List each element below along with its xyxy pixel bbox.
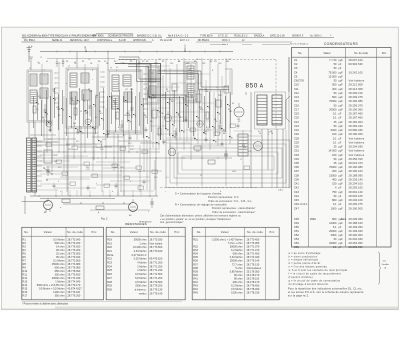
svg-text:28.190.080: 28.190.080 <box>349 99 364 103</box>
svg-text:15: 15 <box>207 129 209 131</box>
svg-text:μμF: μμF <box>339 234 344 237</box>
coil L5 <box>70 73 77 87</box>
svg-text:BANDES O.C. G.B. G.L.: BANDES O.C. G.B. G.L. <box>137 34 163 37</box>
svg-text:c: c <box>165 191 166 193</box>
svg-text:28.295.100: 28.295.100 <box>349 186 364 190</box>
tube B5 output pentode <box>234 103 244 117</box>
wire centre verticals <box>150 58 230 196</box>
svg-text:Ordre de succession: O.C., G.B: Ordre de succession: O.C., G.B., G.L. <box>208 200 253 203</box>
svg-text:R1: R1 <box>23 237 27 241</box>
svg-text:8: 8 <box>212 70 213 72</box>
svg-text:SERIE R.F.: SERIE R.F. <box>292 35 304 37</box>
svg-text:5: 5 <box>96 97 97 99</box>
svg-text:C34: C34 <box>224 155 227 157</box>
wire loop 1 <box>166 140 290 188</box>
svg-text:μμF: μμF <box>339 71 344 74</box>
svg-text:b: b <box>98 212 99 214</box>
svg-text:C48: C48 <box>294 217 299 221</box>
svg-text:R21: R21 <box>58 167 61 169</box>
wire corner enclosure <box>225 69 232 95</box>
svg-text:S2: S2 <box>191 97 193 99</box>
capacitor C4 hanging <box>56 59 58 68</box>
svg-text:C21: C21 <box>173 131 176 133</box>
wire upper dashed feeder <box>47 59 276 131</box>
svg-text:500: 500 <box>332 217 337 221</box>
svg-text:C47: C47 <box>294 206 299 210</box>
svg-text:No. de code: No. de code <box>247 230 263 234</box>
svg-text:μμF: μμF <box>339 166 344 169</box>
svg-text:28.200.400: 28.200.400 <box>349 233 364 237</box>
svg-text:28.779.130: 28.779.130 <box>150 287 163 291</box>
svg-text:28.188.100: 28.188.100 <box>349 221 364 225</box>
svg-text:20000: 20000 <box>329 229 337 233</box>
svg-text:14 ohm: 14 ohm <box>56 244 65 248</box>
svg-text:C5: C5 <box>74 63 76 65</box>
svg-text:R9: R9 <box>194 61 196 63</box>
svg-text:L5: L5 <box>68 66 70 68</box>
svg-text:19.242.100: 19.242.100 <box>349 70 364 74</box>
svg-text:R12: R12 <box>23 276 28 280</box>
wire extra horizontal ticks left <box>36 131 262 191</box>
coil L11 <box>123 75 131 86</box>
svg-text:500 ohm: 500 ohm <box>55 241 65 245</box>
svg-text:150: 150 <box>332 182 337 186</box>
svg-text:28.771.260: 28.771.260 <box>150 276 163 280</box>
svg-text:28.779.250: 28.779.250 <box>150 284 163 288</box>
svg-text:200: 200 <box>332 169 337 173</box>
svg-text:C55: C55 <box>294 245 299 249</box>
svg-text:Fig. 2: Fig. 2 <box>101 217 108 221</box>
svg-text:μμF: μμF <box>339 158 344 161</box>
svg-text:Valeur: Valeur <box>130 230 138 234</box>
svg-text:R17: R17 <box>23 293 28 297</box>
svg-text:C13: C13 <box>294 95 299 99</box>
svg-text:Position représentée: O.C.: Position représentée: O.C. <box>208 196 240 199</box>
resistors table 2 rows <box>107 237 163 295</box>
svg-text:5: 5 <box>140 70 141 72</box>
svg-text:L1: L1 <box>29 68 31 70</box>
svg-text:0,64 Mohm: 0,64 Mohm <box>134 249 147 253</box>
svg-text:90 ohm: 90 ohm <box>234 276 243 280</box>
punch hole <box>23 36 26 39</box>
svg-text:28.206.210: 28.206.210 <box>349 91 364 95</box>
svg-text:50: 50 <box>80 111 82 113</box>
svg-text:C8: C8 <box>179 117 181 119</box>
svg-text:75.000: 75.000 <box>328 70 337 74</box>
svg-text:e: e <box>146 87 147 89</box>
svg-text:C31: C31 <box>294 149 299 153</box>
svg-text:70000: 70000 <box>329 99 337 103</box>
legend switches text <box>160 193 256 225</box>
svg-text:C16: C16 <box>186 63 189 65</box>
labels scatter 2 <box>36 57 270 185</box>
svg-text:C20: C20 <box>294 116 299 120</box>
svg-text:S4: S4 <box>178 61 180 63</box>
svg-text:Cas d'alimentation alternative: Cas d'alimentation alternative: prises, … <box>160 214 241 217</box>
svg-text:2 Mohm: 2 Mohm <box>137 264 146 268</box>
svg-text:C13: C13 <box>154 63 157 65</box>
svg-text:C23: C23 <box>48 139 51 141</box>
svg-text:μμF: μμF <box>339 230 344 233</box>
svg-text:R2: R2 <box>23 241 27 245</box>
svg-text:28.773.660: 28.773.660 <box>150 245 163 249</box>
svg-text:0,5 Mohm: 0,5 Mohm <box>135 280 146 284</box>
wire bus m2 <box>33 157 232 159</box>
svg-text:μμF: μμF <box>339 84 344 87</box>
coil L4 <box>40 88 48 98</box>
svg-text:28.190.080: 28.190.080 <box>349 165 364 169</box>
svg-text:15000 ohm: 15000 ohm <box>230 259 243 263</box>
wire v5 <box>76 52 78 69</box>
svg-text:6: 6 <box>164 70 165 72</box>
wire v7 <box>107 52 109 71</box>
svg-text:DESSIN No. 1247: DESSIN No. 1247 <box>70 40 89 42</box>
svg-text:28.001.470: 28.001.470 <box>349 161 364 165</box>
svg-text:R31: R31 <box>193 237 198 241</box>
svg-text:28.772.340: 28.772.340 <box>247 255 260 259</box>
svg-text:1000: 1000 <box>331 206 337 210</box>
capacitor C30 <box>46 166 50 176</box>
svg-text:28.212.008: 28.212.008 <box>349 83 364 87</box>
svg-text:μμF: μμF <box>339 100 344 103</box>
svg-text:32 ohm: 32 ohm <box>56 251 65 255</box>
svg-text:28.203.140: 28.203.140 <box>349 177 364 181</box>
svg-text:850: 850 <box>246 82 258 89</box>
svg-text:600 ohm: 600 ohm <box>233 252 243 256</box>
upper micro labels <box>38 61 229 72</box>
svg-text:69.479.520: 69.479.520 <box>150 257 163 261</box>
svg-text:C6: C6 <box>90 63 92 65</box>
svg-text:C17: C17 <box>85 113 88 115</box>
svg-text:e: e <box>268 134 269 136</box>
field coil laminations <box>27 138 32 192</box>
svg-text:S1: S1 <box>82 61 84 63</box>
small component boxes scatter <box>46 124 250 189</box>
svg-text:29.779.140: 29.779.140 <box>150 291 163 295</box>
svg-text:B8: B8 <box>44 212 46 214</box>
svg-text:No. de code: No. de code <box>150 230 166 234</box>
svg-text:C4: C4 <box>294 70 298 74</box>
svg-text:R24: R24 <box>107 264 112 268</box>
svg-text:μμF: μμF <box>339 150 344 153</box>
svg-text:15.000: 15.000 <box>328 74 337 78</box>
svg-text:C25: C25 <box>148 141 151 143</box>
svg-text:C30: C30 <box>294 145 299 149</box>
coil L6 <box>70 92 77 104</box>
svg-text:S4: S4 <box>151 73 153 75</box>
svg-text:C21: C21 <box>294 120 299 124</box>
svg-text:μμF: μμF <box>339 133 344 136</box>
svg-text:C31: C31 <box>54 161 57 163</box>
svg-text:C33: C33 <box>170 147 173 149</box>
svg-text:C15: C15 <box>170 63 173 65</box>
svg-text:No. de code: No. de code <box>67 230 83 234</box>
resistor R21 <box>208 160 215 164</box>
svg-text:S.T.D. 22: S.T.D. 22 <box>218 35 228 37</box>
tube B7 <box>168 148 176 156</box>
svg-text:Volt-Isolateur: Volt-Isolateur <box>247 266 262 270</box>
resistors table 3 rows <box>193 237 261 294</box>
svg-text:C50: C50 <box>294 225 299 229</box>
svg-text:750: 750 <box>332 190 337 194</box>
svg-text:15000: 15000 <box>329 173 337 177</box>
svg-text:du bruitage d'accord obscurci.: du bruitage d'accord obscurci. <box>289 283 330 286</box>
svg-text:R29: R29 <box>107 284 112 288</box>
capacitor C14 <box>121 120 124 132</box>
svg-text:R43: R43 <box>193 284 198 288</box>
resistors table 3 header <box>197 230 275 234</box>
tube B9 magic eye <box>129 199 138 212</box>
svg-text:28.007.100: 28.007.100 <box>349 58 364 62</box>
svg-text:C17: C17 <box>294 107 299 111</box>
svg-text:28.256.240: 28.256.240 <box>349 124 364 128</box>
svg-text:R27: R27 <box>107 276 112 280</box>
svg-text:R28: R28 <box>248 151 251 153</box>
loudspeaker <box>286 96 290 122</box>
svg-text:R21: R21 <box>107 249 112 253</box>
svg-text:No. 850A-1: No. 850A-1 <box>310 34 322 37</box>
svg-text:C52: C52 <box>294 233 299 237</box>
coil L9 oscillator <box>112 75 119 91</box>
wire loop 4 <box>178 152 278 174</box>
IF coil S4b <box>149 86 156 98</box>
svg-text:R22: R22 <box>114 167 117 169</box>
svg-text:R16: R16 <box>243 147 246 149</box>
svg-text:3: 3 <box>92 70 93 72</box>
top bus ticks <box>57 50 220 53</box>
svg-text:R20: R20 <box>107 245 112 249</box>
earth terminal <box>29 57 33 60</box>
svg-text:28.256.370: 28.256.370 <box>349 103 364 107</box>
svg-text:R11: R11 <box>214 61 217 63</box>
svg-text:μμF: μμF <box>339 199 344 202</box>
svg-text:4: 4 <box>116 70 117 72</box>
svg-text:28.206.275: 28.206.275 <box>349 202 364 206</box>
svg-text:S2: S2 <box>114 61 116 63</box>
svg-text:28.771.470: 28.771.470 <box>247 248 260 252</box>
svg-text:b: b <box>112 191 113 193</box>
svg-text:μμF: μμF <box>339 178 344 181</box>
wire loop 5 <box>182 156 274 170</box>
svg-text:APPROUVE: APPROUVE <box>133 39 146 42</box>
svg-text:C18: C18 <box>202 63 205 65</box>
svg-text:R18: R18 <box>107 237 112 241</box>
capacitor C12 padder <box>131 102 134 118</box>
svg-text:28.774.430: 28.774.430 <box>68 276 81 280</box>
svg-text:R17: R17 <box>76 141 79 143</box>
svg-text:28.773.500: 28.773.500 <box>68 258 81 262</box>
svg-text:R5: R5 <box>142 61 144 63</box>
svg-text:R14: R14 <box>23 283 28 287</box>
svg-text:2: 2 <box>68 70 69 72</box>
shield can K1 <box>27 70 52 122</box>
svg-text:30000 ohm: 30000 ohm <box>230 245 243 249</box>
svg-text:μμF: μμF <box>339 170 344 173</box>
wire v right4 <box>267 129 269 170</box>
svg-text:25000 ohm: 25000 ohm <box>52 262 65 266</box>
svg-text:C10: C10 <box>294 83 299 87</box>
svg-text:28.776.080: 28.776.080 <box>68 265 81 269</box>
rectifier tube B6 <box>254 142 263 151</box>
svg-text:5: 5 <box>96 183 97 185</box>
shield can K2 <box>66 68 98 128</box>
junction dots mid <box>47 152 219 172</box>
svg-text:SERIE 22: SERIE 22 <box>52 40 63 42</box>
wire v9 <box>123 134 125 196</box>
svg-text:μμF: μμF <box>339 129 344 132</box>
svg-text:0,5: 0,5 <box>114 103 117 105</box>
svg-text:R11: R11 <box>226 61 229 63</box>
svg-text:6,1: 6,1 <box>333 225 337 229</box>
legend right list <box>289 252 348 286</box>
svg-text:R6: R6 <box>23 255 27 259</box>
svg-text:C19: C19 <box>294 112 299 116</box>
coil L2 <box>30 90 37 103</box>
component labels scatter <box>37 62 269 193</box>
svg-text:0,64 Mohm: 0,64 Mohm <box>230 255 243 259</box>
wire v right5 <box>276 129 278 188</box>
svg-text:28.254.450: 28.254.450 <box>349 241 364 245</box>
mid band blobs <box>36 96 230 128</box>
capacitors table frame <box>292 48 392 248</box>
svg-text:R26: R26 <box>107 272 112 276</box>
svg-text:40000 ohm: 40000 ohm <box>52 276 65 280</box>
svg-text:C44: C44 <box>294 194 299 198</box>
svg-text:28.770.450: 28.770.450 <box>247 237 260 241</box>
svg-text:20000: 20000 <box>329 241 337 245</box>
svg-text:1000 ohm: 1000 ohm <box>231 291 242 295</box>
svg-text:R19: R19 <box>128 143 131 145</box>
svg-text:R15: R15 <box>23 286 28 290</box>
svg-text:2-Bev: 2-Bev <box>278 190 283 192</box>
switch contacts left <box>43 167 52 180</box>
svg-text:B5: B5 <box>232 103 234 105</box>
wire heavy vertical chassis <box>160 63 162 140</box>
svg-text:R.F. 850 A: R.F. 850 A <box>24 39 35 42</box>
svg-text:6,2 Mohm: 6,2 Mohm <box>231 248 242 252</box>
svg-text:28.190.100: 28.190.100 <box>349 169 364 173</box>
svg-text:Prix: Prix <box>91 230 97 234</box>
svg-text:50000 ohm: 50000 ohm <box>134 237 147 241</box>
svg-text:C16: C16 <box>294 103 299 107</box>
svg-text:μμF: μμF <box>339 238 344 241</box>
svg-text:7 × 50: 7 × 50 <box>329 58 337 62</box>
svg-text:R16: R16 <box>23 290 28 294</box>
svg-text:28.256.310: 28.256.310 <box>349 157 364 161</box>
svg-text:28.773.080: 28.773.080 <box>68 262 81 266</box>
svg-text:0,5 Mohm: 0,5 Mohm <box>135 272 146 276</box>
svg-text:verdun: verdun <box>139 291 147 295</box>
wire bottom bus 1 <box>30 195 158 197</box>
svg-text:μμF: μμF <box>339 125 344 128</box>
svg-text:200 ohm: 200 ohm <box>233 280 243 284</box>
svg-text:L5: L5 <box>116 67 118 69</box>
svg-text:0,1: 0,1 <box>333 140 337 144</box>
svg-text:C15: C15 <box>158 59 161 61</box>
svg-text:28.771.250: 28.771.250 <box>150 264 163 268</box>
svg-text:R32: R32 <box>193 245 198 249</box>
svg-text:1 Mohm: 1 Mohm <box>55 279 64 283</box>
legend paragraph <box>288 287 364 297</box>
wire drops to bus <box>56 190 150 196</box>
svg-text:28.092.105: 28.092.105 <box>349 194 364 198</box>
svg-text:d: d <box>118 83 119 85</box>
svg-text:R44: R44 <box>193 287 198 291</box>
svg-text:R28: R28 <box>107 280 112 284</box>
svg-text:C49: C49 <box>294 221 299 225</box>
svg-text:R12: R12 <box>153 97 156 99</box>
svg-text:C39: C39 <box>294 177 299 181</box>
svg-text:C54: C54 <box>294 241 299 245</box>
field coil laminations 2 <box>32 138 37 192</box>
svg-text:Feuillet: Feuillet <box>382 263 389 266</box>
wire v right6 <box>282 129 284 188</box>
svg-text:15: 15 <box>39 98 41 100</box>
svg-text:R14: R14 <box>205 131 208 133</box>
svg-text:28.209.450: 28.209.450 <box>349 217 364 221</box>
svg-text:S = Commutateur de longueur d': S = Commutateur de longueur d'ondes. <box>175 193 222 196</box>
resistor R24 <box>62 199 70 203</box>
capacitor symbols scatter <box>49 117 240 191</box>
svg-text:R40: R40 <box>193 273 198 277</box>
coil L3 <box>40 74 48 84</box>
svg-text:R9: R9 <box>23 265 27 269</box>
svg-text:6200: 6200 <box>331 128 337 132</box>
svg-text:C45: C45 <box>294 198 299 202</box>
shield can K3 <box>108 70 142 134</box>
wire bus m4 <box>36 170 162 172</box>
svg-text:28.778.230: 28.778.230 <box>247 291 260 295</box>
svg-text:R41: R41 <box>193 276 198 280</box>
switch S3 contacts <box>144 74 148 110</box>
resistor R1 <box>33 106 36 113</box>
svg-text:0,07 Mohm ±: 0,07 Mohm ± <box>132 253 147 257</box>
svg-text:350 ohm: 350 ohm <box>55 293 65 297</box>
svg-text:28.213.008: 28.213.008 <box>349 87 364 91</box>
svg-text:C36: C36 <box>294 165 299 169</box>
svg-text:TYPE 850 A: TYPE 850 A <box>200 34 213 37</box>
svg-text:μμF: μμF <box>339 174 344 177</box>
svg-text:R37: R37 <box>193 262 198 266</box>
svg-text:No.: No. <box>298 51 302 55</box>
IF transformer S5 can <box>184 62 197 102</box>
svg-text:26.202.040: 26.202.040 <box>349 237 364 241</box>
svg-text:28.178.119: 28.178.119 <box>247 276 260 280</box>
svg-text:μμF: μμF <box>339 92 344 95</box>
svg-text:RADIOLA: RADIOLA <box>254 34 265 37</box>
svg-text:Voir bobines: Voir bobines <box>349 136 365 140</box>
wire dashed schematic bottom <box>160 187 258 189</box>
resistors table 2 header <box>111 230 180 234</box>
svg-text:C8: C8 <box>161 113 163 115</box>
svg-text:C28: C28 <box>294 136 299 140</box>
wire v right1 <box>245 92 247 95</box>
svg-text:25.187.460: 25.187.460 <box>349 112 364 116</box>
svg-text:0,5 Mohm + 0,5 Mohm: 0,5 Mohm + 0,5 Mohm <box>39 286 65 290</box>
svg-text:R33: R33 <box>193 248 198 252</box>
svg-text:50: 50 <box>200 175 202 177</box>
wire v8 <box>117 134 119 196</box>
svg-text:28.199.450: 28.199.450 <box>349 225 364 229</box>
svg-text:R.F.-SCHEMA No 850A TYPE RADIO: R.F.-SCHEMA No 850A TYPE RADIOLA N.V. PH… <box>22 34 96 37</box>
svg-text:5: 5 <box>131 91 132 93</box>
svg-text:0,1: 0,1 <box>333 116 337 120</box>
resistor R3 <box>74 108 77 115</box>
svg-text:C41: C41 <box>294 182 299 186</box>
tube B1 <box>46 121 52 127</box>
svg-text:0,1: 0,1 <box>333 245 337 249</box>
svg-text:R45: R45 <box>193 291 198 295</box>
